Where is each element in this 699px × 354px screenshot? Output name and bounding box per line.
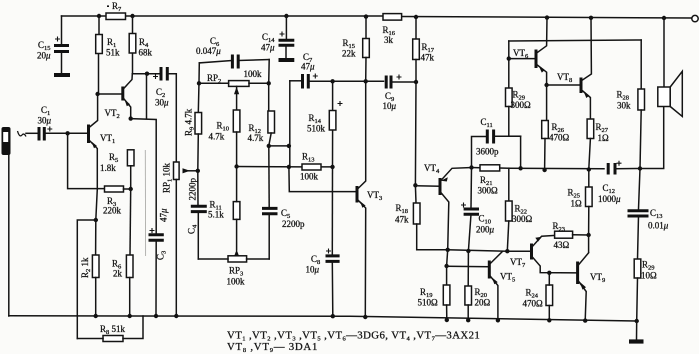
capacitor C1 — [38, 105, 53, 141]
transistor VT4 (PNP) — [424, 163, 472, 250]
capacitor C10 — [461, 168, 495, 252]
node: VT1 emitter / R2 junction — [94, 218, 98, 222]
resistor R9 — [184, 108, 202, 171]
svg-text:100k: 100k — [244, 69, 263, 79]
wire: bias branch from base down and right to R3 — [68, 133, 105, 188]
resistor R7 — [106, 1, 126, 20]
resistor R3 — [103, 186, 133, 216]
svg-text:1Ω: 1Ω — [571, 199, 583, 209]
wire: tone box right column — [268, 60, 271, 112]
wire: VT2 base — [98, 93, 123, 95]
resistor R2 — [80, 255, 99, 316]
svg-text:510k: 510k — [307, 124, 326, 134]
node: RP1 wiper to R9/C4 column — [196, 169, 200, 173]
node: R10 / R11 / R13 junction — [234, 164, 238, 168]
transistor VT7 (PNP) — [510, 235, 578, 273]
capacitor C6 — [196, 36, 238, 69]
wire: VT8 base — [547, 84, 581, 86]
svg-text:300Ω: 300Ω — [511, 100, 532, 110]
resistor R20 — [465, 251, 491, 320]
capacitor C11 (Ct1) bypass loop — [472, 117, 521, 168]
node: output node at VT4 emitter — [469, 165, 473, 169]
resistor R16 — [383, 14, 402, 45]
capacitor C2 — [153, 67, 169, 108]
wire: C1 to VT1 base — [44, 132, 88, 134]
node: C2 left junction — [145, 72, 149, 76]
svg-text:4.7k: 4.7k — [209, 132, 225, 142]
svg-text:4.7k: 4.7k — [248, 133, 264, 143]
ground bar below C15 — [54, 73, 70, 77]
capacitor C4 — [187, 171, 207, 259]
potentiometer RP3 — [198, 250, 269, 287]
svg-text:47k: 47k — [421, 53, 435, 63]
node: VT2 base junction on VT1 collector column — [95, 92, 99, 96]
capacitor C14 — [261, 16, 294, 59]
svg-text:100k: 100k — [300, 172, 319, 182]
wire: output line middle — [509, 167, 604, 170]
node: VT4 base junction — [413, 183, 417, 187]
node: R24 top junction — [547, 271, 551, 275]
resistor R5 — [100, 150, 134, 189]
resistor R27 — [587, 119, 609, 169]
resistor R26 — [542, 85, 570, 170]
ground bar below C14 — [279, 58, 295, 62]
svg-text:3k: 3k — [384, 35, 394, 45]
capacitor C12 — [598, 161, 640, 204]
wire: mid column x288 — [289, 81, 291, 167]
svg-text:470Ω: 470Ω — [523, 299, 544, 309]
wire: collector node down to emitter wire — [146, 74, 148, 119]
svg-text:1.8k: 1.8k — [100, 163, 116, 173]
transistor VT3 — [357, 81, 382, 317]
transistor VT8 — [557, 18, 591, 119]
speaker — [658, 18, 683, 116]
wire: VT4 base — [415, 185, 440, 187]
capacitor C7 — [290, 52, 384, 89]
output terminal circle — [692, 15, 698, 21]
transistor VT9 — [578, 253, 606, 321]
svg-text:30k: 30k — [617, 101, 631, 111]
wire: C2 right down to RP1 — [167, 74, 176, 162]
transistor VT2 — [105, 74, 133, 120]
svg-text:47μ: 47μ — [159, 208, 169, 222]
node: VT2 emitter junction — [129, 116, 133, 120]
node: R13 right junction — [330, 165, 334, 169]
node: R13 left junction — [287, 165, 291, 169]
capacitor C3 — [149, 208, 169, 316]
svg-text:10μ: 10μ — [383, 101, 397, 111]
wire: top supply rail — [62, 16, 693, 18]
svg-text:20μ: 20μ — [37, 51, 51, 61]
svg-text:30μ: 30μ — [155, 98, 169, 108]
node: bottom rail junctions left — [94, 314, 179, 318]
wire: R5/R3 node down to R6 — [129, 189, 132, 255]
resistor R19 — [418, 285, 450, 320]
resistor R28 — [617, 40, 645, 169]
svg-text:510Ω: 510Ω — [418, 298, 439, 308]
node: VT1 base junction — [65, 131, 69, 135]
wire: jack ground down to bottom rail — [8, 155, 10, 316]
wire: bottom rail right junctions — [445, 318, 639, 323]
resistor R30 — [634, 259, 657, 321]
resistor R11 — [208, 167, 240, 251]
svg-text:3600p: 3600p — [476, 147, 499, 157]
potentiometer RP1 — [162, 162, 198, 316]
transistor VT5 — [489, 251, 515, 320]
capacitor C9 — [383, 75, 417, 112]
wire: R8 branch left side — [77, 220, 96, 339]
svg-text:100k: 100k — [227, 277, 246, 287]
wire: emitter to C3 column — [131, 119, 157, 233]
svg-text:10Ω: 10Ω — [641, 271, 657, 281]
svg-text:47k: 47k — [395, 215, 409, 225]
wire: R29 bottom jog to output line — [509, 135, 521, 137]
resistor R6 — [112, 255, 133, 316]
resistor R25 — [568, 169, 593, 252]
node: R12 bottom junction — [267, 144, 271, 148]
svg-text:2200p: 2200p — [282, 219, 305, 229]
svg-text:0.047μ: 0.047μ — [196, 46, 221, 56]
node: rail junctions — [97, 14, 666, 20]
svg-text:5.1k: 5.1k — [208, 210, 224, 220]
resistor R23 — [553, 221, 591, 250]
wire: R12 junction to mid column — [269, 145, 289, 147]
svg-text:10μ: 10μ — [306, 265, 320, 275]
ground symbol at rail end — [629, 321, 644, 342]
resistor R14 — [307, 81, 336, 167]
svg-text:220k: 220k — [103, 206, 122, 216]
svg-text:0.01μ: 0.01μ — [648, 221, 669, 231]
resistor R24 — [523, 273, 553, 321]
svg-text:51k: 51k — [106, 48, 120, 58]
svg-text:2200p: 2200p — [188, 178, 198, 201]
svg-text:22k: 22k — [342, 49, 356, 59]
capacitor C15 — [37, 16, 69, 73]
wire: VT5 base — [447, 265, 490, 268]
resistor R29 (300) — [506, 41, 532, 136]
svg-text:300Ω: 300Ω — [512, 214, 533, 224]
wire: VT4 collector column through VT5 base node to R19 — [447, 250, 448, 285]
stray plus mark near R14 — [338, 101, 343, 106]
wire: bottom ground rail (left) — [9, 316, 637, 321]
resistor R4 — [129, 16, 152, 74]
svg-text:1Ω: 1Ω — [598, 133, 610, 143]
potentiometer RP2 — [197, 69, 271, 110]
svg-text:43Ω: 43Ω — [554, 240, 570, 250]
wire: bootstrap line y40 to R28 — [509, 40, 641, 41]
node: VT6 base junction — [507, 56, 511, 60]
svg-text:300Ω: 300Ω — [478, 186, 499, 196]
transistor VT1 — [89, 94, 116, 189]
resistor R10 — [209, 110, 240, 167]
wire: VT6 base — [509, 58, 536, 60]
resistor R21 — [472, 165, 509, 196]
node: output line junctions — [542, 168, 546, 172]
wire: input to C1 — [26, 132, 37, 134]
resistor R13 — [237, 152, 333, 182]
node: VT6 emitter / VT8 base junction — [544, 83, 548, 87]
wire: lower node row y250 — [448, 250, 532, 251]
wire: speaker return — [640, 107, 664, 169]
svg-text:47μ: 47μ — [301, 62, 315, 72]
input jack — [2, 127, 11, 155]
scan crease artifact — [144, 150, 146, 256]
transistor VT6 — [513, 18, 547, 85]
node: VT5 base junction — [444, 264, 448, 268]
input signal squiggle — [18, 131, 27, 137]
svg-text:47μ: 47μ — [261, 43, 275, 53]
wire: VT2 collector node to C2 — [132, 73, 160, 75]
svg-text:30μ: 30μ — [38, 116, 52, 126]
capacitor C8 — [306, 167, 340, 316]
resistor R15 — [342, 17, 369, 82]
capacitor C13 — [628, 169, 669, 260]
wire: emitter column to R2 — [96, 189, 98, 255]
svg-text:470Ω: 470Ω — [549, 133, 570, 143]
svg-text:20Ω: 20Ω — [475, 298, 491, 308]
node: R14 top junction — [330, 79, 334, 83]
resistor R8 — [77, 316, 143, 342]
node: R17 bottom junction — [414, 80, 418, 84]
resistor R1 — [96, 16, 120, 94]
node: R28 / C12 / speaker junction — [638, 166, 642, 170]
resistor R17 — [413, 17, 435, 185]
svg-text:1000μ: 1000μ — [598, 194, 621, 204]
wire: VT3 base wire — [289, 167, 357, 192]
svg-text:200μ: 200μ — [476, 225, 495, 235]
resistor R18 — [395, 185, 448, 250]
resistor R12 — [248, 111, 275, 146]
resistor R22 — [506, 168, 533, 251]
wire: tone box top with C6 — [199, 60, 269, 63]
capacitor C5 — [262, 146, 305, 259]
svg-text:68k: 68k — [139, 48, 153, 58]
wire: tone box left column — [198, 63, 199, 113]
svg-text:2k: 2k — [113, 269, 123, 279]
